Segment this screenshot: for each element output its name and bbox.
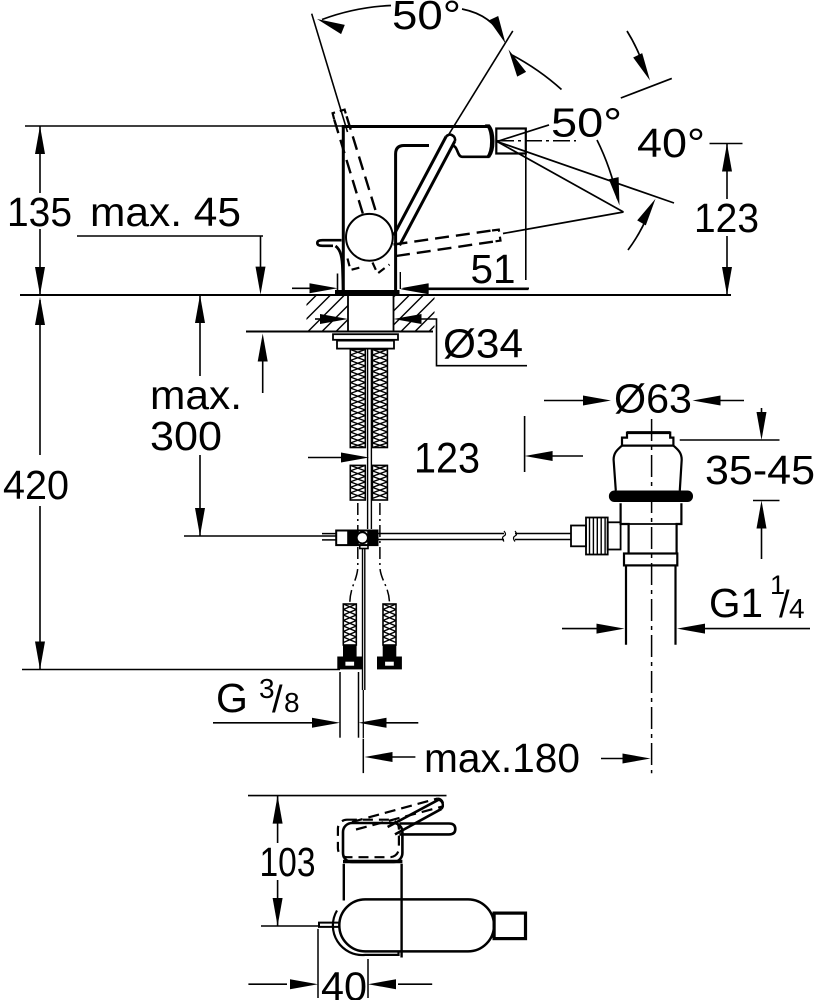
svg-text:Ø63: Ø63 <box>614 376 692 422</box>
svg-text:40: 40 <box>321 964 367 1000</box>
svg-text:123: 123 <box>694 195 759 241</box>
svg-text:8: 8 <box>284 687 300 718</box>
svg-text:420: 420 <box>3 462 69 508</box>
svg-text:35-45: 35-45 <box>705 447 815 493</box>
svg-text:Ø34: Ø34 <box>443 321 523 367</box>
svg-text:max. 45: max. 45 <box>90 189 241 235</box>
svg-text:135: 135 <box>7 189 72 235</box>
svg-text:300: 300 <box>150 413 222 459</box>
svg-text:G1: G1 <box>709 580 763 626</box>
svg-text:50°: 50° <box>551 100 622 146</box>
svg-text:40°: 40° <box>637 120 705 166</box>
svg-text:/: / <box>272 679 283 721</box>
svg-text:max.: max. <box>150 372 242 418</box>
svg-text:G: G <box>216 675 248 721</box>
svg-text:123: 123 <box>414 436 480 483</box>
svg-text:max.180: max.180 <box>424 735 580 781</box>
svg-text:103: 103 <box>260 839 316 885</box>
svg-text:51: 51 <box>471 246 516 292</box>
svg-text:50°: 50° <box>392 0 461 38</box>
svg-text:4: 4 <box>789 593 805 624</box>
